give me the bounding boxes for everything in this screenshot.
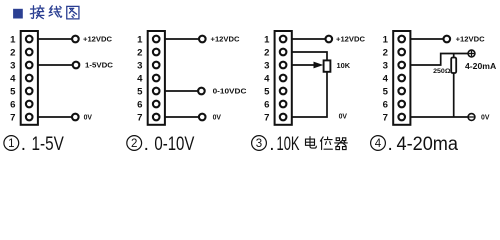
- svg-text:.: .: [21, 134, 26, 155]
- svg-text:2: 2: [10, 47, 15, 58]
- terminal circle-minus 0V output: [468, 114, 475, 121]
- J1 pin numbers 1-7: [10, 34, 16, 123]
- svg-text:1: 1: [137, 34, 143, 45]
- wire J2 pin5 to 0-10VDC terminal: [165, 90, 198, 92]
- svg-text:.: .: [388, 134, 393, 155]
- svg-text:.: .: [144, 134, 149, 155]
- caption 4 circled digit: [371, 136, 386, 151]
- svg-text:3: 3: [137, 60, 142, 71]
- potentiometer RP1 body: [324, 60, 331, 71]
- terminal block J4 body: [393, 31, 410, 125]
- svg-text:+12VDC: +12VDC: [211, 35, 241, 44]
- terminal circle 0V (block1): [72, 114, 79, 121]
- wire J2 pin1 to +12VDC terminal: [165, 38, 199, 40]
- svg-text:2: 2: [383, 47, 388, 58]
- svg-text:0-10V: 0-10V: [154, 134, 194, 155]
- wire J1 pin1 to +12VDC terminal: [38, 38, 72, 40]
- svg-text:4-20ma: 4-20ma: [397, 134, 459, 155]
- svg-text:10K: 10K: [337, 61, 351, 70]
- svg-text:5: 5: [10, 86, 16, 97]
- svg-text:7: 7: [383, 112, 388, 123]
- svg-text:4: 4: [137, 73, 143, 84]
- terminal circle +12VDC (block2): [199, 36, 206, 43]
- caption 3 circled digit: [252, 136, 267, 151]
- terminal block J3 body: [275, 31, 292, 125]
- wire resistor bottom to 0V rail: [453, 73, 455, 117]
- svg-text:1-5V: 1-5V: [32, 134, 65, 155]
- svg-text:10K: 10K: [277, 134, 300, 155]
- svg-text:1: 1: [10, 34, 16, 45]
- terminal circle +12VDC (block4): [444, 36, 451, 43]
- title text 接线图 (wiring diagram): [30, 6, 79, 19]
- svg-text:0V: 0V: [481, 113, 489, 122]
- J4 pin circles 1-7: [398, 36, 405, 121]
- J3 pin circles 1-7: [280, 36, 287, 121]
- svg-text:6: 6: [264, 99, 269, 110]
- terminal block J2 body: [148, 31, 165, 125]
- svg-text:+12VDC: +12VDC: [456, 35, 486, 44]
- svg-text:5: 5: [383, 86, 389, 97]
- svg-text:+12VDC: +12VDC: [336, 35, 366, 44]
- resistor R1 250 ohm body: [451, 58, 456, 74]
- wire J2 pin7 to 0V terminal: [165, 116, 199, 118]
- wire J4 pin1 to +12VDC terminal: [410, 38, 443, 40]
- title bullet square: [13, 9, 23, 19]
- terminal circle 0-10VDC: [198, 88, 205, 95]
- terminal circle +12VDC (block1): [72, 36, 79, 43]
- terminal circle-plus 4-20mA input: [468, 50, 475, 57]
- J4 pin numbers 1-7: [383, 34, 389, 123]
- svg-text:0V: 0V: [84, 113, 92, 122]
- caption 1 circled digit: [4, 136, 19, 151]
- J2 pin numbers 1-7: [137, 34, 143, 123]
- svg-text:4: 4: [383, 73, 389, 84]
- wire potentiometer bottom to pin7: [292, 72, 327, 117]
- svg-text:1: 1: [383, 34, 389, 45]
- J1 pin circles 1-7: [26, 36, 33, 121]
- svg-text:2: 2: [131, 138, 137, 150]
- wire J3 pin3 wiper with arrow: [292, 64, 314, 66]
- svg-text:1: 1: [8, 138, 14, 150]
- svg-text:0-10VDC: 0-10VDC: [213, 87, 247, 96]
- svg-text:4-20mA: 4-20mA: [465, 62, 496, 71]
- wire J1 pin7 to 0V terminal: [38, 116, 72, 118]
- caption 3 text 电位器: [306, 137, 348, 150]
- wire J1 pin3 to 1-5VDC terminal: [38, 64, 73, 66]
- svg-text:5: 5: [137, 86, 143, 97]
- terminal circle 0V (block2): [199, 114, 206, 121]
- svg-text:6: 6: [10, 99, 15, 110]
- svg-text:1-5VDC: 1-5VDC: [85, 61, 114, 70]
- svg-text:3: 3: [256, 138, 262, 150]
- svg-text:3: 3: [10, 60, 15, 71]
- svg-text:7: 7: [137, 112, 142, 123]
- caption 2 circled digit: [127, 136, 142, 151]
- svg-text:4: 4: [375, 138, 382, 150]
- svg-text:3: 3: [264, 60, 269, 71]
- svg-text:0V: 0V: [213, 113, 221, 122]
- svg-text:5: 5: [264, 86, 270, 97]
- wire J4 pin7 to 0V terminal: [410, 116, 468, 118]
- svg-text:.: .: [269, 134, 274, 155]
- wire J4 pin3 jog up to 4-20mA input: [410, 54, 468, 66]
- terminal circle +12VDC (block3): [326, 36, 333, 43]
- terminal circle 1-5VDC: [73, 62, 80, 69]
- wire J3 pin2 to potentiometer top: [292, 52, 327, 60]
- svg-text:4: 4: [264, 73, 270, 84]
- wire junction down from top wire to resistor: [453, 54, 455, 58]
- J3 pin numbers 1-7: [264, 34, 270, 123]
- terminal block J1 body: [21, 31, 38, 125]
- J2 pin circles 1-7: [153, 36, 160, 121]
- svg-text:7: 7: [10, 112, 15, 123]
- svg-text:1: 1: [264, 34, 270, 45]
- svg-text:0V: 0V: [339, 112, 347, 121]
- svg-text:7: 7: [264, 112, 269, 123]
- svg-text:6: 6: [137, 99, 142, 110]
- svg-text:250Ω: 250Ω: [433, 68, 451, 75]
- svg-text:3: 3: [383, 60, 388, 71]
- wiper arrowhead: [314, 62, 324, 69]
- svg-text:4: 4: [10, 73, 16, 84]
- svg-text:2: 2: [264, 47, 269, 58]
- wire J3 pin1 to +12VDC terminal: [292, 38, 326, 40]
- svg-text:2: 2: [137, 47, 142, 58]
- svg-text:+12VDC: +12VDC: [83, 35, 113, 44]
- svg-text:6: 6: [383, 99, 388, 110]
